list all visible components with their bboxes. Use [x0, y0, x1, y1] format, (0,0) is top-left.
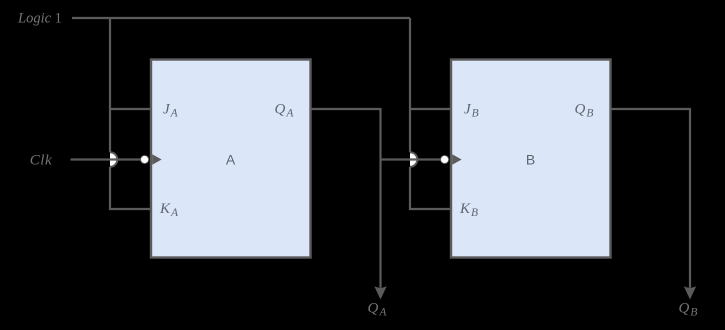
- wire: Clk line: [71, 158, 141, 160]
- hop (wire crossover) on right vertical: [410, 152, 417, 167]
- wire: vertical feed left lower part to K_A: [110, 167, 150, 209]
- clock bubble A: [141, 156, 149, 164]
- wire: vertical feed right (node at x=410): [409, 18, 411, 152]
- wire: vertical feed right lower part to K_B: [410, 167, 450, 209]
- arrowhead Q_A: [374, 286, 386, 299]
- wire: J_A input: [110, 108, 150, 110]
- svg-text:A: A: [226, 152, 236, 168]
- clock bubble B: [441, 156, 449, 164]
- wire: clock line to flip-flop B: [381, 158, 441, 160]
- wire: Q_B output: [611, 109, 690, 288]
- svg-text:Clk: Clk: [30, 153, 52, 169]
- hop (wire crossover) on left vertical: [110, 152, 117, 167]
- svg-text:Logic 1: Logic 1: [17, 11, 62, 27]
- wire: vertical feed left (node at x=110): [109, 18, 111, 152]
- svg-text:B: B: [526, 152, 535, 168]
- flip-flop A body: [151, 60, 311, 258]
- arrowhead Q_B: [684, 286, 696, 299]
- wire: J_B input: [410, 108, 450, 110]
- flip-flop B body: [451, 60, 611, 258]
- clock edge triangle A: [152, 154, 161, 165]
- wire: Q_A output: [311, 109, 381, 288]
- wire: Logic 1 top rail: [72, 17, 410, 19]
- clock edge triangle B: [452, 154, 461, 165]
